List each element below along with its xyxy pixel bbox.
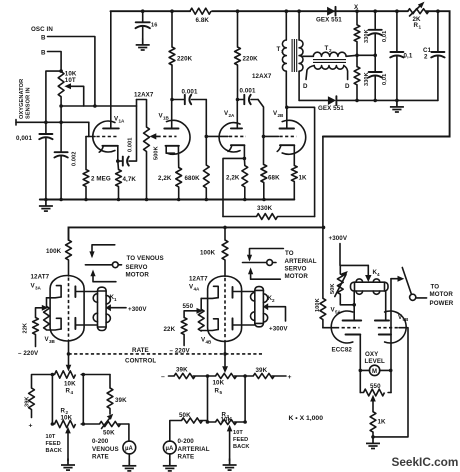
resistor R1 2K (rheostat in top bus) <box>408 9 429 14</box>
ground (cap 16) <box>136 38 150 50</box>
svg-text:4: 4 <box>377 272 380 277</box>
svg-text:0.002: 0.002 <box>72 152 78 167</box>
resistor 100K (V3) <box>66 240 72 276</box>
tube V5A envelope <box>331 311 353 343</box>
svg-text:T: T <box>325 45 329 52</box>
svg-text:2: 2 <box>329 48 332 53</box>
svg-text:5A: 5A <box>335 310 342 315</box>
potentiometer 50K (arterial rate) <box>170 418 208 441</box>
node: V3 cathode on rate line <box>67 352 71 356</box>
svg-text:+300V: +300V <box>269 326 288 333</box>
resistor 6.8K (in top bus) <box>190 8 211 14</box>
svg-text:K • X 1,000: K • X 1,000 <box>289 415 324 422</box>
tube V2A plate <box>231 100 242 129</box>
svg-text:RATE: RATE <box>92 454 109 461</box>
svg-text:10K: 10K <box>221 416 233 423</box>
wire: ground bus (top section) <box>40 199 294 201</box>
potentiometer 550 (V4 grid) <box>198 298 204 331</box>
svg-text:0-200: 0-200 <box>92 438 109 445</box>
resistor 1K (oxy wiper) <box>370 412 376 437</box>
tube V1A envelope <box>93 121 115 152</box>
svg-text:CONTROL: CONTROL <box>125 358 156 365</box>
wire: sensor line up to pot top <box>46 71 61 122</box>
ground (R3 wiper) <box>223 459 237 471</box>
svg-text:0.001: 0.001 <box>182 89 198 96</box>
svg-text:GEX 551: GEX 551 <box>318 105 344 112</box>
node: R2 end junctions <box>51 422 85 426</box>
node: 1K bottom junction <box>371 435 375 439</box>
tube V1B grid with 500K wiper arrow <box>150 133 177 139</box>
potentiometer 10K R5 with down wiper <box>208 354 246 379</box>
tube V1B cathode <box>166 146 179 168</box>
relay K4 coil (horizontal) <box>351 279 389 294</box>
meter 0-200 venous (uA) <box>123 424 136 459</box>
node: +300V bus junctions <box>223 226 325 230</box>
wire: oxygenator sensor input <box>16 120 89 137</box>
wire: switch feed arrow <box>391 276 404 282</box>
potentiometer 550 (oxy level) <box>360 389 391 412</box>
svg-text:50K: 50K <box>103 430 115 437</box>
potentiometer 10K 10T (on B2 line) <box>58 72 64 200</box>
meter 0-200 arterial (uA) <box>163 441 176 459</box>
tube V5A grid (dashed) <box>336 327 360 329</box>
capacitor 0.001 (V1B-V2A coupling) <box>172 95 206 104</box>
svg-text:BACK: BACK <box>46 448 63 454</box>
svg-text:2B: 2B <box>278 113 285 118</box>
transformer T1 primary (left winding) <box>282 11 286 107</box>
svg-text:LEVEL: LEVEL <box>365 358 386 365</box>
wire: oscillator line to 500K top <box>61 105 136 107</box>
wire: bottom rectifier bus <box>299 99 438 101</box>
svg-text:OSC IN: OSC IN <box>31 26 53 33</box>
svg-text:2 MEG: 2 MEG <box>91 176 111 183</box>
svg-text:MOTOR: MOTOR <box>285 273 309 280</box>
resistor 2.2K (V2A cathode) <box>242 158 248 199</box>
svg-text:6.8K: 6.8K <box>196 17 210 24</box>
capacitor 0.001 (input shunt) <box>39 122 52 199</box>
svg-text:FEED: FEED <box>233 437 248 443</box>
svg-text:1: 1 <box>281 49 284 54</box>
svg-text:10K: 10K <box>213 380 225 387</box>
svg-text:2,2K: 2,2K <box>158 175 172 182</box>
resistor 39K (left vertical) <box>29 388 35 418</box>
tube V4B grid <box>201 319 218 331</box>
resistor 2.2K (V1B cathode) <box>176 168 182 200</box>
svg-text:1B: 1B <box>163 116 170 121</box>
svg-text:680K: 680K <box>185 175 201 182</box>
tube V4A plate <box>233 287 255 298</box>
node: V1A cathode junction <box>116 159 120 163</box>
svg-text:500K: 500K <box>154 146 160 160</box>
svg-text:12AX7: 12AX7 <box>134 92 154 99</box>
node: V2A grid junction <box>205 135 209 139</box>
svg-text:3A: 3A <box>35 286 42 291</box>
svg-text:4,7K: 4,7K <box>123 176 137 183</box>
node: input junction at 0.001 <box>44 121 48 125</box>
resistor 100K (V4) <box>222 227 228 276</box>
wire: +300V bus (middle) <box>69 227 324 240</box>
node: R5 end junctions <box>206 374 247 378</box>
capacitor C1/2 <box>431 11 444 100</box>
capacitor 0.002 <box>54 152 67 157</box>
svg-text:100K: 100K <box>315 298 321 312</box>
transformer T2 secondary (bumps down) <box>306 66 348 80</box>
wire: top bus 6.8K to 2K R1 <box>212 10 408 12</box>
svg-text:16: 16 <box>151 23 157 29</box>
transformer T2 primary (bumps up) <box>313 52 346 56</box>
tube V4B plate <box>233 318 255 329</box>
svg-text:0,1: 0,1 <box>404 53 413 60</box>
potentiometer 50K (venous rate) <box>83 414 129 429</box>
switch symbol: arterial servo contacts <box>243 249 284 280</box>
svg-text:10K: 10K <box>61 415 73 422</box>
tube V1A plate <box>103 11 119 128</box>
svg-text:0,01: 0,01 <box>382 31 388 42</box>
node: R3 end junctions <box>206 420 247 424</box>
svg-text:+300V: +300V <box>329 235 348 242</box>
diode GEX 551 (top) <box>327 7 335 16</box>
resistor 330K (upper, X node) <box>354 11 360 66</box>
svg-text:OXYGENATOR: OXYGENATOR <box>19 79 25 119</box>
tube V1A grid (dashed) <box>86 136 118 138</box>
capacitor 16 (bypass to ground) <box>136 11 150 38</box>
potentiometer R3 10K <box>208 419 246 424</box>
wire: feedback line from output to V5A grid <box>323 137 336 328</box>
node: V2B plate junction <box>285 106 289 110</box>
svg-text:330K: 330K <box>257 205 273 212</box>
node: meter junctions <box>359 369 393 373</box>
node: V2A plate junction <box>236 98 240 102</box>
svg-text:T: T <box>277 46 281 53</box>
tube V2B cathode <box>277 145 294 165</box>
transformer T1 secondary (right winding, center tapped) <box>299 11 303 100</box>
svg-text:1K: 1K <box>299 175 308 182</box>
svg-text:BACK: BACK <box>233 444 250 450</box>
svg-text:–: – <box>161 373 165 380</box>
tube V5B envelope <box>385 311 407 343</box>
capacitor 0.001 (V1A cathode bypass) <box>118 100 137 166</box>
node: 0.01 caps junction <box>373 54 377 58</box>
svg-text:0,01: 0,01 <box>382 74 388 85</box>
tube V2A envelope <box>219 123 240 152</box>
svg-text:VENOUS: VENOUS <box>92 446 119 453</box>
svg-text:10T: 10T <box>65 77 76 84</box>
tube V5B plate <box>375 291 389 321</box>
switch symbol: venous servo contacts <box>85 245 121 282</box>
svg-text:1A: 1A <box>119 119 126 124</box>
svg-text:OXY: OXY <box>365 351 379 358</box>
svg-text:RATE: RATE <box>132 347 149 354</box>
svg-text:+: + <box>288 374 292 381</box>
resistor 39K (V3 channel, to 50K) <box>83 375 113 415</box>
relay K1 coil <box>93 287 110 330</box>
resistor 330K (feedback, horizontal) <box>223 214 315 220</box>
svg-text:TO: TO <box>285 250 294 257</box>
svg-text:ECC82: ECC82 <box>332 347 353 354</box>
tube V3 envelope (12AT7) <box>50 276 84 342</box>
svg-text:SeekIC.com: SeekIC.com <box>392 455 459 469</box>
potentiometer 50K (oxy level supply) <box>335 265 354 304</box>
svg-text:330K: 330K <box>364 72 370 86</box>
svg-text:12AT7: 12AT7 <box>189 276 208 283</box>
svg-text:1: 1 <box>419 25 422 30</box>
wire: R4 left to 39K <box>32 375 53 389</box>
terminal B (lower) wire <box>48 52 62 72</box>
svg-text:M: M <box>372 369 377 375</box>
tube V3B plate <box>75 318 97 329</box>
svg-text:MOTOR: MOTOR <box>430 291 454 298</box>
tube V2B grid <box>264 135 297 137</box>
tube V5A plate <box>343 291 362 321</box>
wire: K1 wiper to +300V <box>106 304 126 311</box>
node: ground bus junctions <box>44 198 266 202</box>
resistor 220K (V1B plate load) <box>169 11 175 99</box>
potentiometer 10K R4 with down wiper <box>52 354 83 378</box>
svg-text:39K: 39K <box>115 397 127 404</box>
node: junctions on B2 line <box>59 69 63 124</box>
svg-text:220K: 220K <box>243 56 259 63</box>
svg-text:50K: 50K <box>179 412 191 419</box>
ground (output network) <box>390 100 404 112</box>
svg-text:2,2K: 2,2K <box>226 175 240 182</box>
svg-text:MOTOR: MOTOR <box>126 272 150 279</box>
wire: T1 tap to T2 primary <box>302 55 314 57</box>
svg-text:RATE: RATE <box>178 454 195 461</box>
wire: R2 wiper (10T feedback) to ground <box>65 427 71 461</box>
svg-text:550: 550 <box>183 303 194 310</box>
wire: R3 wiper (10T feedback) to ground <box>227 425 233 461</box>
svg-text:2A: 2A <box>229 113 236 118</box>
svg-text:550: 550 <box>370 383 381 390</box>
tube V2B envelope <box>282 120 306 154</box>
svg-text:100K: 100K <box>46 248 62 255</box>
svg-text:5: 5 <box>220 390 223 395</box>
tube V3 center cathode line (dashed) <box>68 278 70 354</box>
svg-text:POWER: POWER <box>430 300 454 307</box>
wire: V3 pot wiper to 22K <box>36 305 49 318</box>
svg-text:330K: 330K <box>364 29 370 43</box>
svg-text:4B: 4B <box>206 340 213 345</box>
meter M (oxy level) <box>360 365 390 375</box>
svg-text:22K: 22K <box>164 326 176 333</box>
node: V1B plate junction <box>170 98 174 102</box>
resistor 220K (V2A plate load) <box>235 11 241 99</box>
transformer T1 core <box>292 39 297 72</box>
tube V5A cathode <box>346 335 361 393</box>
svg-text:µA: µA <box>125 446 133 452</box>
svg-text:0.001: 0.001 <box>240 88 256 95</box>
svg-text:39K: 39K <box>256 367 268 374</box>
resistor 1K (V2B cathode) <box>291 166 297 200</box>
wire: +300V down to K4 and 50K <box>340 244 368 266</box>
svg-text:SERVO: SERVO <box>126 264 148 271</box>
svg-text:10T: 10T <box>46 434 56 440</box>
svg-text:1K: 1K <box>378 419 387 426</box>
resistor 2 MEG (V1A grid leak) <box>83 137 89 200</box>
potentiometer (V3 grid bias) <box>44 298 50 330</box>
wire: top bus right end down to feedback line <box>323 11 450 136</box>
wire: coupling cap down to V2A grid node and 680K <box>205 100 207 166</box>
svg-text:0.001: 0.001 <box>128 138 134 153</box>
svg-text:0-200: 0-200 <box>178 438 195 445</box>
transformer T2 core <box>313 60 346 63</box>
svg-text:39K: 39K <box>25 396 31 407</box>
node: junctions on top bus <box>141 9 440 13</box>
ground (venous meter) <box>122 459 136 471</box>
wire: rate control dashed line <box>69 353 263 355</box>
capacitor 0.001 (V2A-V2B coupling) <box>238 95 259 104</box>
wire: 10K pot wiper <box>64 83 83 106</box>
svg-text:4A: 4A <box>194 287 201 292</box>
potentiometer 500K <box>137 100 150 200</box>
svg-text:TO: TO <box>431 284 440 291</box>
svg-text:100K: 100K <box>200 250 216 257</box>
tube V2A grid <box>206 135 246 137</box>
wire: R4/R2 side rails <box>52 375 83 425</box>
resistor 4.7K (V1A cathode) <box>116 161 122 199</box>
node: V4 cathode on rate line <box>223 352 227 356</box>
svg-text:TO VENOUS: TO VENOUS <box>127 255 164 262</box>
tube V4A grid <box>201 286 218 298</box>
svg-text:3B: 3B <box>49 339 56 344</box>
tube V3B grid <box>47 318 62 330</box>
capacitor 0.01 (upper) <box>369 11 382 55</box>
svg-text:0,001: 0,001 <box>16 135 32 142</box>
tube V4 center cathode line (dashed) <box>224 278 226 354</box>
potentiometer R2 10K <box>52 420 83 427</box>
svg-text:SERVO: SERVO <box>285 265 307 272</box>
svg-text:1: 1 <box>114 297 117 302</box>
wire: V2A cathode feedback to 330K <box>223 158 244 216</box>
capacitor 0.01 (lower) <box>369 55 382 100</box>
svg-text:39K: 39K <box>176 367 188 374</box>
svg-text:– 220V: – 220V <box>18 350 39 357</box>
wire: T2 primary to 330K junction <box>346 55 357 56</box>
relay K2 coil <box>251 287 268 327</box>
resistor 22K (V4) <box>181 318 187 346</box>
svg-text:4: 4 <box>71 390 74 395</box>
wire: V2B plate to 330K feedback <box>287 107 315 216</box>
svg-text:12AX7: 12AX7 <box>252 73 272 80</box>
node: V2B grid junction <box>262 135 266 139</box>
tube V3A grid <box>47 286 62 298</box>
tube V3A plate <box>75 286 97 297</box>
svg-text:B: B <box>41 35 46 42</box>
node: bottom bus junctions <box>355 99 399 103</box>
resistor 68K (V2B grid leak) <box>261 165 267 200</box>
svg-text:ARTERIAL: ARTERIAL <box>178 446 210 453</box>
wire: coupling to V2B grid node and 68K <box>258 100 264 165</box>
tube V5B grid to ground return <box>373 328 408 437</box>
wire: 330K mid to 0.01 mid <box>357 54 375 56</box>
diode GEX 551 (bottom) <box>328 96 337 105</box>
tube V1B envelope <box>167 120 191 154</box>
tube V1A cathode <box>99 146 118 161</box>
svg-text:10T: 10T <box>233 430 243 436</box>
node: V2A cathode junction <box>243 157 247 161</box>
svg-text:10K: 10K <box>64 381 76 388</box>
switch: to motor power <box>402 268 426 301</box>
node: B1 joins osc line <box>93 104 97 108</box>
svg-text:12AT7: 12AT7 <box>31 274 50 281</box>
tube V4 envelope (12AT7) <box>208 276 242 342</box>
resistor 330K (lower) <box>354 67 360 101</box>
wire: K2 wiper to +300V <box>263 303 286 321</box>
svg-text:68K: 68K <box>268 175 280 182</box>
ground (oxy level) <box>366 437 380 449</box>
svg-text:2: 2 <box>272 298 275 303</box>
tube V2B plate <box>280 107 295 128</box>
ground (main bus) <box>39 200 53 212</box>
svg-text:5B: 5B <box>403 317 410 322</box>
svg-text:– 220V: – 220V <box>170 348 191 355</box>
wire: R1 wiper diagonal arrow <box>410 4 423 16</box>
resistor 39K (left of R5) <box>169 373 208 378</box>
resistor 680K (V2A grid leak) <box>203 165 209 200</box>
svg-text:FEED: FEED <box>46 441 61 447</box>
resistor 39K (right of R5) <box>245 373 286 378</box>
svg-text:D: D <box>345 83 350 90</box>
ground (arterial meter) <box>163 459 177 471</box>
svg-text:SENSOR IN: SENSOR IN <box>26 87 32 119</box>
wire: B+ top bus left of 6.8K <box>111 10 191 12</box>
capacitor 0.1 <box>390 11 403 100</box>
svg-text:2: 2 <box>424 54 428 61</box>
svg-text:GEX 551: GEX 551 <box>316 17 342 24</box>
terminal B (OSC IN upper) wire <box>48 37 95 107</box>
wire: K4 wiper from +300V <box>365 265 371 282</box>
tube V1B plate <box>164 100 178 129</box>
tube V2A cathode <box>228 145 244 158</box>
svg-text:22K: 22K <box>22 323 28 334</box>
svg-text:ARTERIAL: ARTERIAL <box>285 258 317 265</box>
svg-text:D: D <box>303 83 308 90</box>
tube V5B cathode / motor power line <box>379 279 391 393</box>
node: V5A plate junction <box>352 303 356 307</box>
resistor 22K (V3) <box>33 318 39 347</box>
svg-text:+300V: +300V <box>128 306 147 313</box>
svg-text:µA: µA <box>166 446 174 452</box>
resistor 100K (feedback, vertical) <box>320 298 326 319</box>
wire: 550 wiper to 22K <box>184 308 203 318</box>
svg-text:B: B <box>41 50 46 57</box>
ground (R2 wiper) <box>61 459 75 471</box>
node: R4 end junctions <box>51 373 85 377</box>
svg-text:50K: 50K <box>330 283 336 294</box>
wire: R5/R3 side rails <box>208 376 246 422</box>
node: 330K midpoint junction <box>355 54 359 58</box>
svg-text:220K: 220K <box>177 56 193 63</box>
svg-text:+: + <box>29 423 33 430</box>
